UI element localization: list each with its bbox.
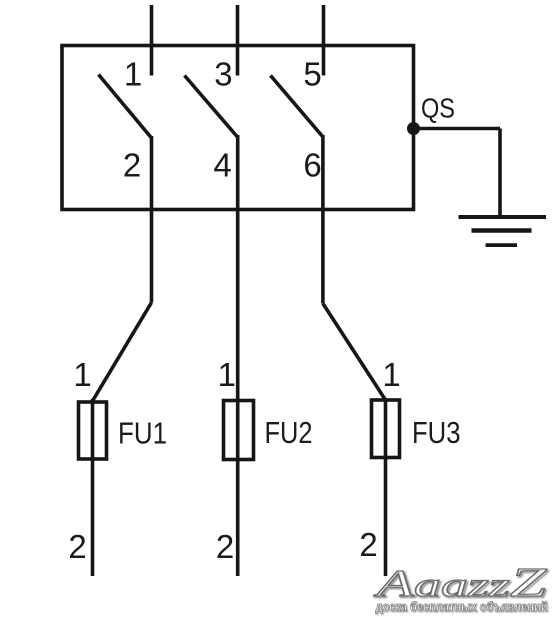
svg-text:2: 2 xyxy=(359,526,377,563)
svg-text:1: 1 xyxy=(382,356,400,393)
svg-text:доска бесплатных объявлений: доска бесплатных объявлений xyxy=(376,600,548,614)
svg-text:2: 2 xyxy=(68,528,86,565)
svg-text:5: 5 xyxy=(303,56,321,93)
svg-text:FU2: FU2 xyxy=(265,415,313,450)
svg-text:QS: QS xyxy=(421,93,455,124)
svg-text:2: 2 xyxy=(123,147,141,184)
svg-text:1: 1 xyxy=(124,56,142,93)
svg-text:1: 1 xyxy=(73,356,91,393)
svg-text:2: 2 xyxy=(216,528,234,565)
svg-text:4: 4 xyxy=(213,147,231,184)
svg-text:FU1: FU1 xyxy=(118,416,167,451)
svg-text:FU3: FU3 xyxy=(412,415,461,450)
svg-text:6: 6 xyxy=(303,147,321,184)
svg-text:1: 1 xyxy=(218,356,236,393)
svg-text:3: 3 xyxy=(214,56,232,93)
